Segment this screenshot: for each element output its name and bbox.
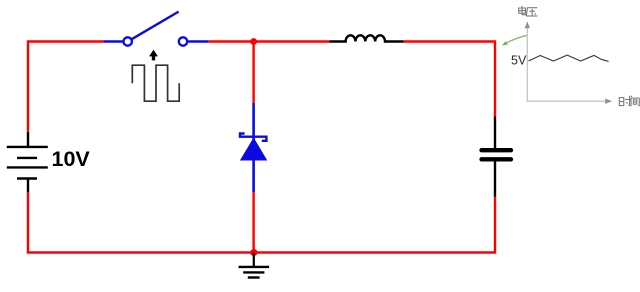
- svg-text:10V: 10V: [52, 147, 91, 171]
- svg-text:5V: 5V: [511, 54, 527, 68]
